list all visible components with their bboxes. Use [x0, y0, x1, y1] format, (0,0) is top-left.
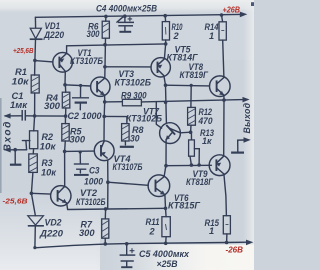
svg-text:Д220: Д220: [43, 30, 65, 40]
svg-text:КТ3107Б: КТ3107Б: [113, 162, 143, 172]
svg-text:300: 300: [79, 228, 95, 238]
svg-text:10к: 10к: [12, 77, 31, 87]
svg-text:2: 2: [149, 226, 156, 236]
svg-text:С3: С3: [89, 165, 100, 175]
svg-text:С4 4000мк×25В: С4 4000мк×25В: [96, 4, 157, 14]
svg-text:С2 1000: С2 1000: [68, 111, 103, 121]
svg-text:1: 1: [209, 226, 214, 236]
svg-text:470: 470: [198, 116, 214, 126]
svg-text:10к: 10к: [41, 167, 57, 177]
svg-text:КТ3102Б: КТ3102Б: [76, 197, 106, 207]
svg-text:Д220: Д220: [39, 228, 64, 238]
svg-text:10к: 10к: [40, 141, 57, 151]
svg-text:1к: 1к: [202, 136, 213, 146]
svg-text:300: 300: [87, 29, 101, 39]
svg-text:КТ3102Б: КТ3102Б: [115, 78, 152, 88]
svg-text:+26В: +26В: [223, 6, 241, 15]
svg-text:КТ818Г: КТ818Г: [186, 177, 213, 187]
svg-text:КТ819Г: КТ819Г: [180, 70, 209, 80]
svg-text:30: 30: [130, 133, 140, 143]
svg-text:Вход: Вход: [2, 120, 13, 152]
svg-text:1000: 1000: [84, 176, 104, 186]
svg-text:КТ815Г: КТ815Г: [168, 201, 200, 211]
svg-text:С5 4000мкх: С5 4000мкх: [139, 249, 190, 259]
svg-text:R11: R11: [146, 217, 160, 227]
svg-text:300: 300: [44, 101, 61, 111]
svg-text:Выход: Выход: [242, 102, 252, 133]
svg-text:2: 2: [173, 31, 180, 41]
svg-text:1: 1: [209, 31, 214, 41]
svg-text:1мк: 1мк: [10, 100, 28, 110]
svg-text:300: 300: [70, 134, 86, 144]
svg-text:R1: R1: [15, 67, 27, 77]
svg-text:КТ3102Б: КТ3102Б: [126, 113, 162, 123]
svg-text:КТ3107Б: КТ3107Б: [70, 56, 103, 66]
svg-text:-26В: -26В: [226, 245, 244, 254]
svg-text:+25,6В: +25,6В: [13, 46, 34, 55]
svg-text:×25В: ×25В: [157, 259, 178, 269]
svg-text:R2: R2: [42, 132, 54, 142]
svg-text:VD2: VD2: [45, 217, 63, 227]
svg-text:-25,6В: -25,6В: [3, 196, 28, 205]
svg-text:КТ814Г: КТ814Г: [167, 53, 198, 63]
svg-text:R9 300: R9 300: [121, 91, 147, 101]
